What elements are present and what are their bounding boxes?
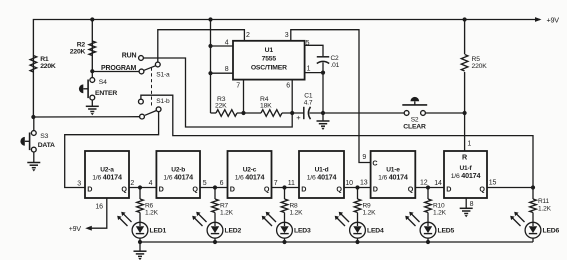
svg-text:220K: 220K [472, 63, 488, 70]
svg-text:2: 2 [246, 32, 250, 39]
svg-text:+9V: +9V [547, 15, 560, 24]
wire U2-b Q to U2-c D (pins 5,6) [200, 187, 228, 189]
node R2 top junction [90, 17, 94, 21]
node rail junction x=357.5 [355, 240, 359, 244]
svg-text:12: 12 [420, 179, 428, 186]
wire S1-b lower contact to R1/S3 data line [33, 116, 139, 118]
svg-text:R7: R7 [220, 202, 229, 209]
pin 7 riser [243, 80, 245, 113]
svg-text:8: 8 [225, 66, 229, 73]
wire S3 to ground [33, 152, 35, 162]
svg-text:PROGRAM: PROGRAM [101, 65, 137, 72]
svg-text:1.2K: 1.2K [220, 209, 234, 216]
svg-text:R1: R1 [40, 56, 49, 63]
svg-text:6: 6 [220, 180, 224, 187]
flip-flop U2-a 1/6 40174 [85, 151, 129, 198]
wire pin 4 stub [211, 45, 234, 47]
node R1/S3 junction [31, 115, 35, 119]
node LED2 tap [213, 185, 217, 189]
node C1/ground junction [321, 111, 325, 115]
svg-text:1/6 40174: 1/6 40174 [378, 172, 408, 181]
svg-text:1/6 40174: 1/6 40174 [307, 172, 337, 181]
switch S2 CLEAR pushbutton [404, 111, 409, 116]
svg-text:1: 1 [307, 65, 311, 72]
svg-text:Q: Q [336, 184, 342, 193]
node pin4 junction [208, 44, 212, 48]
wire U2-c Q to U1-d D (pins 7,11) [272, 187, 300, 189]
switch S3 DATA pushbutton [33, 117, 35, 131]
svg-text:LED6: LED6 [543, 227, 560, 234]
wire S2 to R5 [425, 112, 464, 114]
node LED5 tap [426, 185, 430, 189]
svg-text:R6: R6 [145, 202, 154, 209]
resistor R6 1.2K [139, 188, 141, 200]
wire S1-a pole to timer pin 2 [158, 30, 245, 62]
svg-text:D: D [159, 184, 164, 193]
svg-text:6: 6 [286, 83, 290, 90]
flip-flop U2-c 1/6 40174 [228, 151, 272, 198]
svg-text:CLEAR: CLEAR [403, 124, 426, 131]
svg-text:ENTER: ENTER [95, 90, 117, 97]
ground under S3 [27, 163, 40, 168]
svg-text:10: 10 [345, 180, 353, 187]
svg-text:1/6 40174: 1/6 40174 [163, 172, 193, 181]
svg-text:U1: U1 [265, 47, 274, 54]
svg-text:5: 5 [203, 180, 207, 187]
op-amp U1 7555 OSC/TIMER [233, 41, 305, 80]
wire +9V to pins 4,8 and R3 [210, 20, 212, 114]
resistor R1 220K [30, 56, 37, 73]
svg-text:11: 11 [288, 180, 295, 187]
svg-text:22K: 22K [215, 103, 227, 110]
wire LED5 to ground rail [427, 238, 429, 242]
svg-text:16: 16 [95, 204, 103, 211]
svg-text:7: 7 [236, 83, 240, 90]
svg-text:Q: Q [264, 184, 270, 193]
wire S1-b pole to D input U2-a pin 3 [65, 112, 159, 188]
svg-text:S4: S4 [99, 79, 107, 86]
ground under LED1 rail [134, 251, 147, 256]
svg-text:1.2K: 1.2K [145, 209, 159, 216]
svg-text:S1-b: S1-b [156, 98, 170, 105]
svg-text:3: 3 [285, 32, 289, 39]
node rail junction x=140 [138, 240, 142, 244]
wire C2 to pin 1 junction [322, 62, 324, 113]
svg-text:C: C [372, 158, 377, 167]
switch S1-a [144, 66, 156, 71]
node rail junction x=284.5 [282, 240, 286, 244]
svg-text:15: 15 [489, 180, 497, 187]
node pin1/C2 junction [321, 71, 325, 75]
svg-text:8: 8 [470, 201, 474, 208]
svg-text:3: 3 [77, 180, 81, 187]
svg-text:4.7: 4.7 [304, 100, 313, 107]
node LED3 tap [282, 185, 286, 189]
switch S4 ENTER pushbutton [91, 71, 93, 77]
svg-text:D: D [446, 184, 451, 193]
resistor R9 1.2K [357, 188, 359, 200]
wire S4 to ground [91, 100, 93, 106]
flip-flop U1-d 1/6 40174 [299, 151, 344, 198]
node LED1 tap [138, 185, 142, 189]
pin 6 riser [291, 80, 293, 113]
svg-text:R10: R10 [433, 202, 445, 209]
svg-text:LED4: LED4 [367, 227, 384, 234]
node LED4 tap [355, 185, 359, 189]
svg-text:1/6 40174: 1/6 40174 [92, 172, 122, 181]
svg-text:1.2K: 1.2K [290, 209, 304, 216]
wire rail to ground [139, 242, 141, 251]
svg-text:1: 1 [467, 140, 471, 147]
LED LED1 [139, 213, 141, 227]
node +9V arrow [535, 17, 542, 22]
wire LED3 to ground rail [284, 238, 286, 242]
svg-text:1/6 40174: 1/6 40174 [451, 171, 481, 180]
svg-text:1.2K: 1.2K [363, 209, 377, 216]
LED LED3 [284, 213, 286, 227]
svg-text:9: 9 [362, 154, 366, 161]
svg-text:R5: R5 [472, 56, 481, 63]
wire U1-e Q to U1-f D (pins 12,14) [415, 187, 444, 189]
wire reset line to U1-f pin 1 [464, 113, 466, 151]
svg-text:Q: Q [479, 184, 485, 193]
svg-text:7555: 7555 [262, 56, 277, 63]
svg-text:1/6 40174: 1/6 40174 [235, 172, 265, 181]
wire U2-a Q to U2-b D (pins 2,4) [129, 187, 156, 189]
ground under S4 [86, 106, 99, 111]
capacitor C2 .01 [317, 56, 329, 58]
LED LED4 [357, 213, 359, 227]
svg-text:LED5: LED5 [438, 227, 455, 234]
svg-text:OSC/TIMER: OSC/TIMER [251, 64, 287, 71]
svg-text:13: 13 [360, 180, 368, 187]
svg-text:S2: S2 [411, 117, 419, 124]
svg-text:R8: R8 [290, 202, 299, 209]
svg-text:DATA: DATA [38, 142, 55, 149]
wire timer pin 3 to clock C [291, 30, 371, 163]
ground under C1 [322, 113, 324, 121]
node R4/pin6/C1 junction [290, 111, 294, 115]
wire pin 8 to ground [465, 198, 467, 208]
resistor R4 18K [261, 110, 282, 117]
resistor R10 1.2K [427, 188, 429, 200]
wire LED2 to ground rail [214, 238, 216, 242]
wire bottom ground rail [140, 241, 533, 243]
svg-text:R9: R9 [363, 202, 372, 209]
svg-text:LED3: LED3 [294, 227, 311, 234]
svg-text:4: 4 [149, 180, 153, 187]
wire RUN contact to pin6 junction [143, 58, 292, 127]
node R5/S2 junction [463, 111, 467, 115]
svg-text:1.2K: 1.2K [538, 205, 552, 212]
svg-text:Q: Q [121, 184, 127, 193]
resistor R3 22K [211, 112, 217, 114]
svg-text:18K: 18K [260, 103, 272, 110]
svg-text:7: 7 [274, 180, 278, 187]
LED LED6 [532, 213, 534, 227]
wire LED1 to ground rail [139, 238, 141, 242]
LED LED5 [427, 213, 429, 227]
node R2/S4/PROGRAM junction [90, 69, 94, 73]
svg-text:Q: Q [408, 184, 414, 193]
svg-text:RUN: RUN [122, 52, 137, 59]
svg-text:220K: 220K [70, 48, 86, 55]
wire LED6 to ground rail [532, 238, 534, 242]
wire U1-f Q output pin 15 [487, 187, 533, 189]
wire S1-b upper contact to Q6 feedback [141, 95, 533, 187]
svg-text:Q: Q [192, 184, 198, 193]
node Q6/feedback junction [531, 185, 535, 189]
svg-text:220K: 220K [40, 63, 56, 70]
svg-text:S1-a: S1-a [156, 71, 170, 78]
svg-text:D: D [87, 184, 92, 193]
svg-text:14: 14 [434, 180, 442, 187]
svg-text:4: 4 [225, 40, 229, 47]
svg-text:LED2: LED2 [225, 227, 242, 234]
flip-flop U2-b 1/6 40174 [156, 151, 200, 198]
svg-text:D: D [230, 184, 235, 193]
resistor R7 1.2K [214, 188, 216, 200]
LED LED2 [214, 213, 216, 227]
node rail junction x=215 [213, 240, 217, 244]
wire pin 16 to +9V [88, 198, 107, 228]
wire R2/S4 to PROGRAM contact [92, 71, 139, 73]
wire S1 gang link (dashed) [151, 68, 153, 107]
svg-text:R11: R11 [538, 198, 550, 205]
svg-text:LED1: LED1 [150, 227, 167, 234]
svg-text:.01: .01 [331, 62, 340, 69]
ground under U1-f pin 8 [460, 208, 473, 213]
wire pin 8 stub [211, 72, 234, 74]
flip-flop U1-f 1/6 40174 [444, 151, 487, 198]
svg-text:+9V: +9V [69, 226, 82, 233]
wire +9V top rail [33, 20, 540, 118]
svg-text:1.2K: 1.2K [433, 209, 447, 216]
node R5 top [463, 17, 467, 21]
svg-text:D: D [373, 184, 378, 193]
resistor R2 220K [91, 20, 93, 72]
wire LED4 to ground rail [357, 238, 359, 242]
svg-text:2: 2 [130, 180, 134, 187]
node pin8 junction [208, 71, 212, 75]
node rail junction x=428 [426, 240, 430, 244]
node R3/R4/pin7 junction [241, 111, 245, 115]
svg-text:D: D [301, 184, 306, 193]
flip-flop U1-e 1/6 40174 [371, 151, 416, 198]
resistor R5 220K [464, 20, 466, 114]
wire U1-d Q to U1-e D (pins 10,13) [344, 187, 371, 189]
resistor R11 1.2K [532, 190, 534, 200]
resistor R8 1.2K [284, 188, 286, 200]
svg-text:S3: S3 [40, 133, 48, 140]
